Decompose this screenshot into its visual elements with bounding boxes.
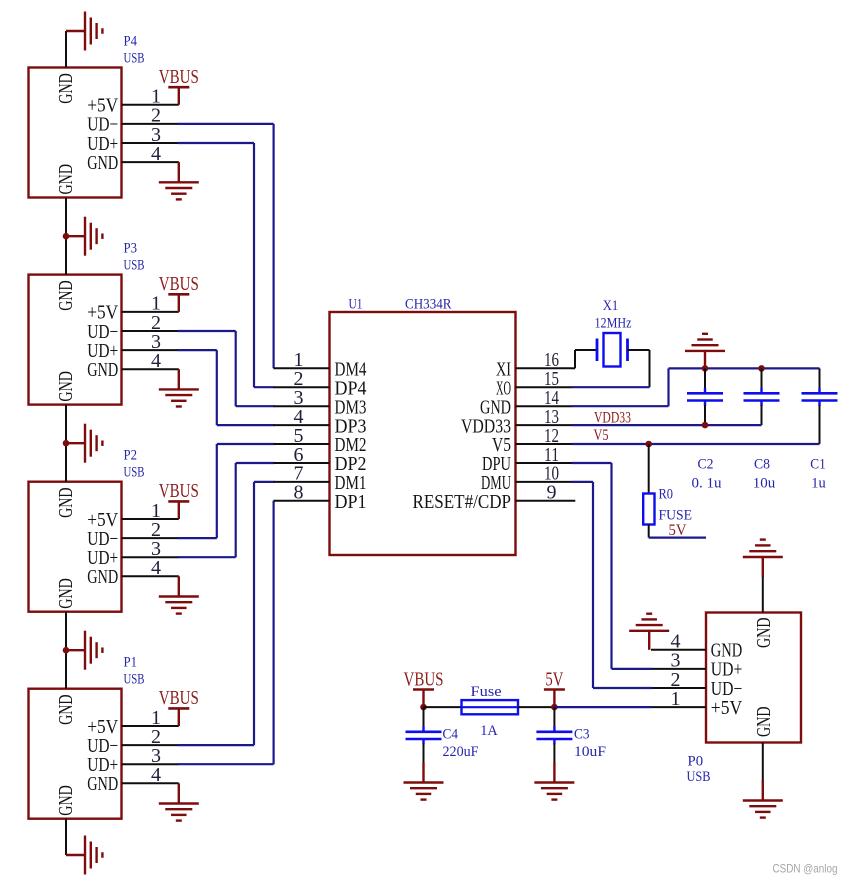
svg-text:X1: X1 — [603, 298, 619, 314]
svg-text:VBUS: VBUS — [159, 480, 199, 502]
svg-text:USB: USB — [124, 50, 145, 66]
svg-text:GND: GND — [55, 73, 77, 104]
svg-text:C1: C1 — [810, 456, 826, 472]
svg-text:USB: USB — [687, 769, 711, 785]
svg-text:C3: C3 — [574, 727, 590, 743]
svg-text:R0: R0 — [659, 486, 674, 502]
svg-text:8: 8 — [294, 482, 304, 504]
svg-text:P4: P4 — [124, 33, 138, 49]
svg-text:10u: 10u — [753, 476, 776, 492]
svg-text:GND: GND — [55, 578, 77, 609]
svg-text:GND: GND — [753, 618, 775, 649]
svg-text:10uF: 10uF — [574, 744, 606, 760]
svg-text:VDD33: VDD33 — [594, 409, 631, 426]
svg-text:USB: USB — [124, 465, 145, 481]
svg-text:C8: C8 — [754, 456, 770, 472]
svg-text:GND: GND — [753, 707, 775, 738]
svg-text:DP1: DP1 — [335, 491, 367, 513]
svg-text:GND: GND — [55, 785, 77, 816]
svg-text:VBUS: VBUS — [404, 668, 444, 690]
svg-text:+5V: +5V — [711, 697, 743, 719]
svg-text:USB: USB — [124, 672, 145, 688]
svg-text:1u: 1u — [811, 476, 826, 492]
svg-text:V5: V5 — [594, 427, 609, 444]
svg-text:FUSE: FUSE — [659, 507, 693, 523]
svg-text:P0: P0 — [688, 754, 704, 770]
svg-text:C2: C2 — [698, 456, 714, 472]
svg-text:GND: GND — [55, 487, 77, 518]
svg-text:5V: 5V — [545, 668, 563, 690]
svg-text:VBUS: VBUS — [159, 273, 199, 295]
svg-text:GND: GND — [55, 371, 77, 402]
svg-text:VBUS: VBUS — [159, 687, 199, 709]
svg-text:CSDN @anlog: CSDN @anlog — [773, 862, 838, 876]
svg-text:RESET#/CDP: RESET#/CDP — [413, 491, 512, 513]
svg-text:P2: P2 — [124, 448, 138, 464]
svg-text:CH334R: CH334R — [405, 297, 452, 313]
svg-text:GND: GND — [55, 280, 77, 311]
svg-text:0. 1u: 0. 1u — [692, 476, 723, 492]
svg-text:5V: 5V — [669, 522, 687, 539]
svg-text:GND: GND — [55, 694, 77, 725]
svg-text:220uF: 220uF — [443, 744, 479, 760]
svg-text:GND: GND — [87, 152, 118, 174]
svg-text:U1: U1 — [349, 297, 363, 313]
svg-text:VBUS: VBUS — [159, 66, 199, 88]
svg-text:C4: C4 — [443, 727, 459, 743]
svg-text:GND: GND — [87, 359, 118, 381]
svg-text:GND: GND — [55, 164, 77, 195]
svg-text:USB: USB — [124, 257, 145, 273]
svg-text:P3: P3 — [124, 240, 138, 256]
svg-text:Fuse: Fuse — [471, 684, 502, 700]
svg-text:12MHz: 12MHz — [595, 316, 632, 332]
svg-text:P1: P1 — [124, 655, 138, 671]
svg-text:GND: GND — [87, 566, 118, 588]
svg-text:1A: 1A — [480, 723, 498, 739]
svg-text:9: 9 — [547, 482, 557, 504]
svg-text:GND: GND — [87, 773, 118, 795]
